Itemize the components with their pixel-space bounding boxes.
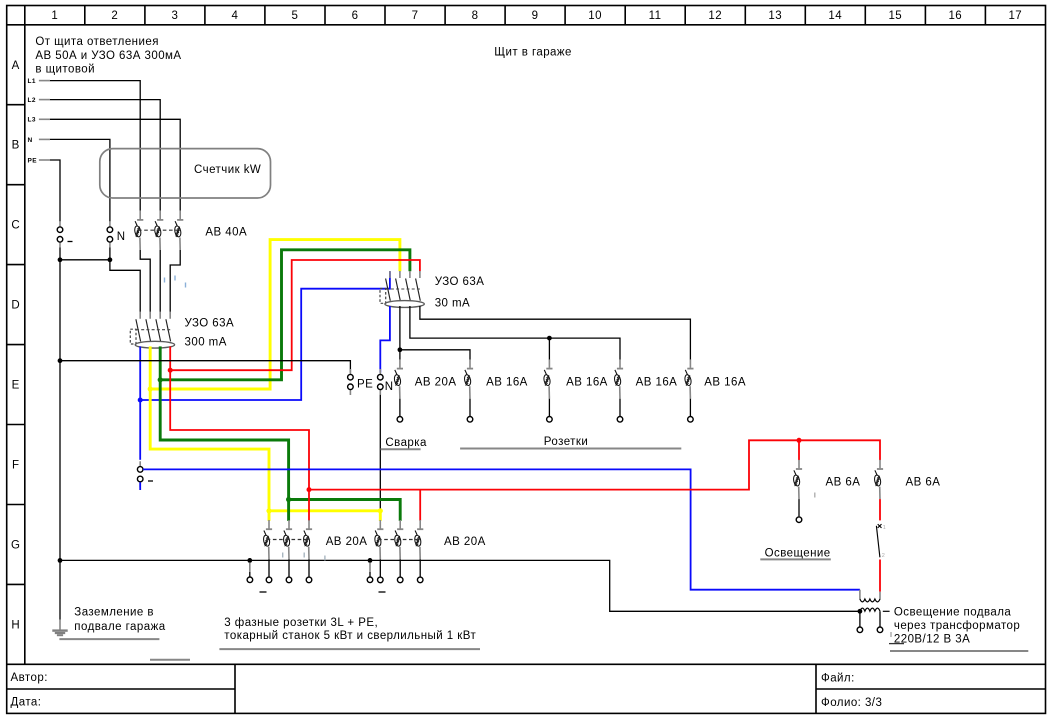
svg-text:АВ 16А: АВ 16А — [636, 377, 678, 389]
terminal X4 (PE) — [348, 369, 354, 395]
svg-text:H: H — [11, 619, 20, 631]
svg-text:A: A — [12, 60, 20, 72]
svg-text:PE: PE — [28, 157, 38, 164]
PE outlet stub QF7 — [249, 563, 251, 573]
svg-text:14: 14 — [828, 10, 842, 22]
wire N out of QD1 (blue) — [139, 346, 141, 400]
wire green to QF8 — [289, 500, 401, 521]
svg-text:АВ 40А: АВ 40А — [205, 226, 247, 238]
junction yellow at QF8 — [378, 508, 383, 513]
terminal X3 blue stub — [139, 482, 141, 490]
junction PE/PEN — [58, 257, 63, 262]
svg-text:АВ 20А: АВ 20А — [326, 536, 368, 548]
svg-text:PE: PE — [357, 379, 373, 391]
svg-text:F: F — [12, 460, 19, 472]
wire L2 branch to QF4 — [548, 338, 550, 360]
junction red at QF7 — [307, 487, 312, 492]
transformer T1 primary winding — [860, 599, 880, 602]
svg-text:через трансформатор: через трансформатор — [894, 620, 1020, 632]
svg-text:17: 17 — [1008, 10, 1022, 22]
wire L2 — [39, 99, 50, 101]
svg-text:АВ 16А: АВ 16А — [566, 377, 608, 389]
svg-text:Фолио: 3/3: Фолио: 3/3 — [821, 697, 882, 709]
transformer T1 primary leads — [860, 590, 880, 600]
svg-text:10: 10 — [588, 10, 602, 22]
terminal X3 dash label — [148, 480, 153, 482]
svg-text:АВ 6А: АВ 6А — [906, 477, 941, 489]
junction PE bus — [58, 358, 63, 363]
svg-text:300 mA: 300 mA — [185, 337, 227, 349]
junction L1 branch — [398, 347, 403, 352]
circuit breaker QF10 АВ 6А — [874, 460, 883, 499]
RCD QD2 УЗО 63А 30 mA — [380, 271, 424, 307]
wire yellow to QD2 — [150, 240, 400, 389]
junction bottom bus left — [58, 558, 63, 563]
svg-text:1: 1 — [51, 10, 58, 22]
circuit breaker QF9 АВ 6А — [793, 460, 802, 523]
svg-text:От щита ответлениея: От щита ответлениея — [35, 36, 158, 48]
wire QD2 N out (blue) — [380, 306, 390, 373]
junction PE stub QF7 — [247, 558, 252, 563]
junction green at QF7 — [286, 497, 291, 502]
junction red lighting — [797, 438, 802, 443]
wire L1 — [39, 80, 50, 82]
junction red — [168, 368, 173, 373]
QF9 pin mark faint — [814, 493, 816, 498]
svg-text:2: 2 — [111, 10, 118, 22]
RCD QD1 УЗО 63А 300 mA — [130, 312, 174, 348]
title block texts — [11, 672, 883, 709]
svg-text:Сварка: Сварка — [385, 437, 427, 449]
svg-text:4: 4 — [231, 10, 238, 22]
svg-text:C: C — [11, 220, 20, 232]
wire L1 out of QD1 (yellow) — [149, 346, 152, 389]
wire QF1 pole2 to RCD1 pole3 — [159, 250, 161, 312]
svg-text:токарный станок 5 кВт и сверли: токарный станок 5 кВт и сверлильный 1 кВ… — [224, 630, 476, 642]
circuit breaker QF8 pole3 — [414, 520, 423, 583]
note: long underline — [890, 650, 1028, 652]
svg-text:подвале гаража: подвале гаража — [74, 621, 165, 633]
svg-text:6: 6 — [352, 10, 359, 22]
svg-text:12: 12 — [708, 10, 722, 22]
wire yellow QF8 pole1 drop — [379, 511, 382, 521]
wire red to QD2 — [170, 260, 420, 370]
terminal X1 (PE) — [57, 222, 63, 248]
wire N terminal down to QF group2 — [379, 395, 381, 511]
switch S1 cross mark — [878, 524, 882, 528]
svg-text:Щит в гараже: Щит в гараже — [494, 46, 572, 58]
QF1 linkage dashed — [138, 229, 178, 231]
wire PE vertical bus — [59, 248, 61, 620]
wire L1 branch to QF3 — [400, 350, 470, 360]
wire red to QF9 — [798, 440, 800, 460]
svg-text:АВ 20А: АВ 20А — [444, 536, 486, 548]
circuit breaker QF5 АВ 16А — [614, 359, 623, 422]
svg-text:N: N — [28, 137, 33, 144]
PE outlet circle QF7 — [247, 577, 253, 583]
wire N to RCD pole 1 — [110, 248, 140, 312]
svg-text:Розетки: Розетки — [544, 436, 588, 448]
svg-text:АВ 20А: АВ 20А — [415, 377, 457, 389]
wire blue N down to terminal — [139, 400, 141, 460]
wire PE horizontal bus — [60, 361, 350, 373]
terminal X2 (N) — [107, 222, 113, 248]
circuit breaker QF7 АВ 20А 3P pole1 — [263, 520, 272, 583]
T1 label dash — [883, 610, 890, 612]
circuit breaker QF3 АВ 16А — [464, 359, 473, 422]
junction N/PEN — [108, 257, 113, 262]
junction PE stub QF8 — [368, 558, 373, 563]
wire red QF7 pole3 drop — [308, 490, 310, 521]
svg-text:9: 9 — [532, 10, 539, 22]
svg-text:Заземление в: Заземление в — [74, 607, 154, 619]
svg-text:АВ 16А: АВ 16А — [486, 377, 528, 389]
wire neutral-bar long (blue) — [143, 469, 860, 589]
svg-text:3 фазные розетки 3L + PE,: 3 фазные розетки 3L + PE, — [224, 617, 378, 629]
svg-text:L3: L3 — [28, 117, 37, 124]
svg-text:G: G — [11, 539, 20, 551]
wire switch to transformer (red) — [879, 560, 881, 592]
svg-text:Освещение: Освещение — [765, 547, 831, 559]
note: small dark underline — [889, 643, 904, 645]
PE outlet circle QF8 — [367, 577, 373, 583]
grid row letters — [11, 60, 20, 632]
svg-text:АВ 50А и УЗО 63А 300мА: АВ 50А и УЗО 63А 300мА — [35, 50, 181, 62]
QF7 linkage dashed — [267, 539, 307, 541]
circuit breaker QF8 АВ 20А 3P pole1 — [374, 520, 383, 583]
wire yellow QF7 pole1 drop — [268, 511, 271, 521]
wire QD2 L1 out — [399, 306, 401, 360]
wire yellow down to QF group — [150, 389, 269, 511]
note: Освещение underline — [760, 558, 831, 560]
T1 secondary tails — [860, 611, 880, 627]
junction blue N — [138, 398, 143, 403]
wire green down to QF group — [160, 380, 288, 500]
circuit breaker QF7 pole2 — [283, 520, 292, 583]
svg-text:Дата:: Дата: — [11, 696, 42, 708]
QF8 linkage dashed — [378, 539, 418, 541]
svg-text:Освещение подвала: Освещение подвала — [894, 606, 1012, 618]
circuit breaker QF6 АВ 16А — [684, 359, 693, 422]
wire PE in — [39, 159, 50, 161]
svg-text:УЗО 63А: УЗО 63А — [185, 317, 235, 329]
svg-text:Автор:: Автор: — [11, 672, 48, 684]
svg-text:1: 1 — [883, 525, 886, 531]
svg-text:16: 16 — [948, 10, 962, 22]
wire red QF8 pole3 drop — [419, 490, 421, 521]
circuit breaker QF1 АВ 40А pole 1 — [134, 211, 143, 250]
switch S1 blade — [876, 526, 880, 558]
svg-text:15: 15 — [888, 10, 902, 22]
wire yellow to QF8 — [269, 509, 380, 512]
wire green QF7 pole2 drop — [287, 500, 290, 521]
note: tiny mark — [890, 632, 892, 637]
svg-text:Файл:: Файл: — [821, 673, 855, 685]
svg-text:11: 11 — [649, 10, 662, 22]
transformer T1 secondary winding — [860, 608, 880, 611]
T1 outlet circle right — [877, 627, 883, 633]
wire L3 — [39, 118, 50, 120]
PE outlet stub QF8 — [369, 563, 371, 573]
wire red down to QF group — [170, 370, 309, 489]
note: Заземление underline — [59, 638, 159, 640]
wire blue N to QD2 — [140, 271, 390, 400]
note: source panel description — [35, 36, 181, 76]
svg-text:L2: L2 — [28, 97, 37, 104]
wire QF1 pole3 to RCD1 pole4 — [170, 250, 180, 312]
ground symbol — [52, 631, 67, 636]
circuit breaker QF7 pole3 — [303, 520, 312, 583]
svg-text:E: E — [12, 380, 20, 392]
junction yellow at QF7 — [266, 508, 271, 513]
wire QD2 L3 out — [420, 306, 691, 360]
svg-text:N: N — [117, 231, 126, 243]
QF7 dash label — [260, 591, 267, 593]
wire QF1 pole1 to RCD1 pole2 — [140, 250, 150, 312]
wire green to QD2 — [160, 250, 410, 380]
svg-text:2: 2 — [882, 553, 885, 559]
circuit breaker QF8 pole2 — [394, 520, 403, 583]
terminal X3 (N-bar) — [137, 461, 143, 487]
wire L2 out of QD1 (green) — [159, 346, 162, 379]
grid column numbers — [51, 10, 1022, 22]
circuit breaker QF1 АВ 40А pole 3 — [174, 211, 183, 250]
junction bus at T1 — [858, 609, 863, 614]
QF8 dash label — [379, 591, 386, 593]
svg-text:B: B — [12, 140, 20, 152]
svg-text:3: 3 — [171, 10, 178, 22]
circuit breaker QF1 АВ 40А pole 2 — [154, 211, 163, 250]
svg-text:в щитовой: в щитовой — [35, 64, 95, 76]
svg-text:АВ 16А: АВ 16А — [704, 377, 746, 389]
T1 outlet circle left — [857, 627, 863, 633]
svg-text:D: D — [11, 300, 20, 312]
wire red to QF8 and lighting — [309, 440, 880, 489]
stray underline mark — [150, 659, 190, 661]
wire N in — [39, 138, 50, 140]
terminal X1 dash label — [68, 241, 73, 243]
circuit breaker QF4 АВ 16А — [543, 359, 552, 422]
wire bottom PE bus — [60, 560, 860, 611]
svg-text:30 mA: 30 mA — [435, 298, 471, 310]
wire QF10 out (red) — [879, 499, 881, 520]
circuit breaker QF2 АВ 20А (welding) — [394, 359, 403, 422]
wire QD2 L2 out — [410, 306, 620, 360]
svg-text:13: 13 — [768, 10, 782, 22]
svg-text:L1: L1 — [28, 78, 37, 85]
pin marks QF1 (faint) — [165, 276, 186, 288]
svg-text:АВ 6А: АВ 6А — [826, 477, 861, 489]
wire L3 out of QD1 (red) — [169, 346, 171, 370]
svg-text:УЗО 63А: УЗО 63А — [435, 276, 485, 288]
svg-text:Счетчик kW: Счетчик kW — [194, 164, 261, 176]
svg-text:7: 7 — [412, 10, 419, 22]
note: Розетки underline — [460, 448, 681, 450]
wire PEN bond — [60, 259, 110, 261]
junction yellow — [148, 386, 153, 391]
note underline — [219, 648, 480, 650]
pin marks QF7 (faint) — [283, 553, 325, 561]
svg-text:N: N — [385, 381, 394, 393]
ground electrode wire — [59, 620, 61, 630]
svg-text:5: 5 — [291, 10, 298, 22]
junction green — [158, 377, 163, 382]
junction L2 branch — [547, 336, 552, 341]
svg-text:8: 8 — [472, 10, 479, 22]
svg-text:220В/12 В 3А: 220В/12 В 3А — [894, 634, 970, 646]
kWh meter P1 box — [100, 149, 271, 198]
note: Сварка underline — [381, 448, 421, 450]
terminal X5 (N) — [378, 369, 384, 395]
